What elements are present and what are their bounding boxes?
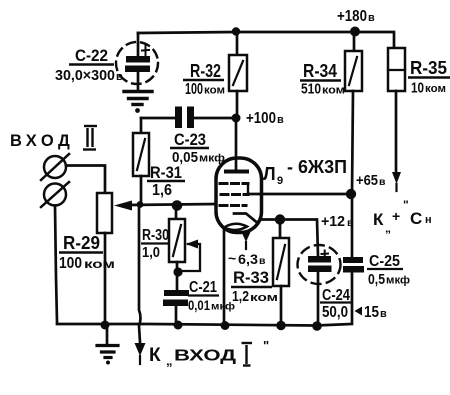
resistor R35 — [388, 48, 405, 91]
svg-text:9: 9 — [277, 175, 283, 187]
svg-text:С: С — [410, 209, 422, 228]
capacitor C21 — [163, 290, 189, 306]
node grid junction small dot — [137, 201, 144, 208]
svg-text:в: в — [368, 12, 375, 24]
svg-text:ком: ком — [322, 85, 345, 97]
svg-text:ком: ком — [425, 83, 446, 95]
wire +65v node to C25 — [351, 194, 354, 257]
node rail junction C21 — [174, 321, 183, 330]
svg-text:Л: Л — [263, 164, 276, 184]
heater arrow to 6.3v — [242, 232, 251, 242]
wire to input I (down through rail) — [139, 205, 141, 342]
svg-text:30,0×300: 30,0×300 — [55, 67, 115, 84]
svg-text:15: 15 — [364, 304, 379, 321]
node R30 bottom dot — [173, 267, 182, 276]
svg-text:1,2: 1,2 — [232, 288, 249, 305]
svg-text:ВХОД: ВХОД — [174, 348, 236, 365]
potentiometer R29 — [97, 193, 112, 233]
svg-text:R-34: R-34 — [303, 61, 337, 81]
node grid junction big dot — [172, 200, 183, 211]
tube cathode — [234, 214, 261, 223]
capacitor C24 dashed circle — [298, 245, 341, 284]
svg-text:R-30: R-30 — [142, 227, 169, 244]
resistor R31 — [133, 133, 149, 176]
svg-text:мкф: мкф — [386, 275, 410, 287]
svg-text:в: в — [347, 217, 354, 229]
connector jack input II upper — [44, 156, 66, 178]
svg-text:ВХОД: ВХОД — [10, 132, 74, 150]
svg-text:К: К — [373, 210, 384, 229]
connector jack input II lower — [44, 184, 66, 206]
svg-text:R-35: R-35 — [410, 58, 447, 78]
node cathode junction dot — [275, 214, 285, 224]
node rail junction C24 — [312, 321, 322, 331]
svg-text:": " — [403, 198, 409, 212]
svg-text:": " — [263, 338, 269, 353]
roman numeral I — [242, 343, 253, 366]
svg-text:в: в — [379, 176, 386, 188]
node rail junction R33 — [276, 321, 286, 331]
svg-text:R-33: R-33 — [233, 268, 269, 287]
svg-text:50,0: 50,0 — [322, 304, 348, 321]
svg-text:мкф: мкф — [199, 153, 225, 165]
svg-text:+12: +12 — [321, 213, 345, 230]
svg-text:в: в — [259, 255, 266, 267]
svg-text:C-22: C-22 — [75, 46, 108, 65]
tube grid rows — [220, 184, 248, 206]
svg-text:в: в — [116, 71, 123, 83]
capacitor C24 plus mark — [322, 251, 329, 258]
node +65v junction dot — [346, 189, 356, 199]
svg-text:R-29: R-29 — [63, 233, 100, 253]
svg-text:„: „ — [166, 353, 173, 368]
svg-text:0,5: 0,5 — [368, 271, 385, 288]
wire cathode node — [261, 220, 318, 257]
svg-text:6,3: 6,3 — [238, 251, 258, 267]
svg-text:- 6Ж3П: - 6Ж3П — [287, 157, 347, 177]
svg-text:C-23: C-23 — [174, 130, 206, 149]
tube anode lead and plate — [235, 118, 238, 171]
svg-text:+180: +180 — [337, 8, 367, 25]
wire grid line with wiper arrow to R29 — [126, 204, 216, 205]
potentiometer R30 — [175, 205, 178, 219]
wire C22 top lead — [137, 33, 140, 56]
svg-text:+65: +65 — [356, 172, 378, 189]
ground main — [106, 325, 109, 344]
svg-text:C-25: C-25 — [369, 253, 400, 270]
wire C22 bottom lead — [137, 72, 140, 90]
svg-text:R-31: R-31 — [150, 163, 182, 182]
wire heater left to rail — [223, 230, 226, 324]
svg-text:10: 10 — [411, 80, 424, 97]
resistor R34 — [353, 32, 356, 51]
tube heater — [224, 224, 247, 230]
node +100v junction dot — [232, 114, 241, 123]
svg-text:ком: ком — [204, 85, 225, 97]
svg-text:н: н — [425, 214, 432, 226]
capacitor C22 plus mark — [142, 46, 149, 56]
svg-text:+100: +100 — [246, 110, 276, 127]
svg-text:К: К — [149, 345, 161, 366]
svg-text:+: + — [392, 208, 400, 224]
svg-text:510: 510 — [301, 81, 321, 98]
capacitor C22 electrolytic plates — [125, 56, 150, 72]
svg-text:1,6: 1,6 — [152, 182, 172, 199]
arrow to input I — [135, 343, 146, 356]
capacitor C23 — [194, 117, 232, 120]
wiper loop R30 — [183, 244, 200, 271]
wire bottom rail — [57, 272, 352, 326]
svg-text:100: 100 — [185, 81, 203, 98]
roman numeral II — [83, 126, 97, 150]
svg-text:~: ~ — [228, 250, 236, 266]
wire top supply rail +180v — [138, 32, 394, 48]
svg-text:C-21: C-21 — [189, 279, 217, 296]
svg-text:ком: ком — [250, 292, 278, 304]
node rail junction heater — [221, 321, 230, 330]
svg-text:ком: ком — [84, 257, 115, 271]
arrow 15v pointer — [355, 307, 363, 316]
wire screen grid to +65v node — [248, 193, 351, 196]
svg-text:R-32: R-32 — [190, 61, 221, 81]
tube L9 envelope — [216, 158, 262, 233]
wire jack1 to R29 top — [66, 166, 105, 194]
svg-text:в: в — [277, 114, 284, 126]
node R29 bottom dot — [101, 321, 110, 330]
capacitor C25 plates — [343, 257, 364, 273]
svg-text:„: „ — [385, 221, 391, 235]
svg-text:0,01: 0,01 — [188, 297, 210, 313]
svg-text:1,0: 1,0 — [142, 244, 160, 261]
capacitor C22 dashed circle — [116, 42, 158, 84]
resistor R33 — [279, 219, 282, 238]
node +180v junction dot — [350, 27, 360, 37]
svg-text:в: в — [380, 308, 387, 320]
resistor R32 — [236, 32, 239, 55]
svg-text:100: 100 — [59, 255, 82, 272]
wire jack2 down to rail — [55, 206, 57, 323]
ground under C22 — [124, 92, 152, 105]
node R32 top junction dot — [232, 27, 240, 35]
wire C24 bottom — [317, 272, 320, 326]
capacitor C24 electrolytic plates — [308, 256, 332, 272]
